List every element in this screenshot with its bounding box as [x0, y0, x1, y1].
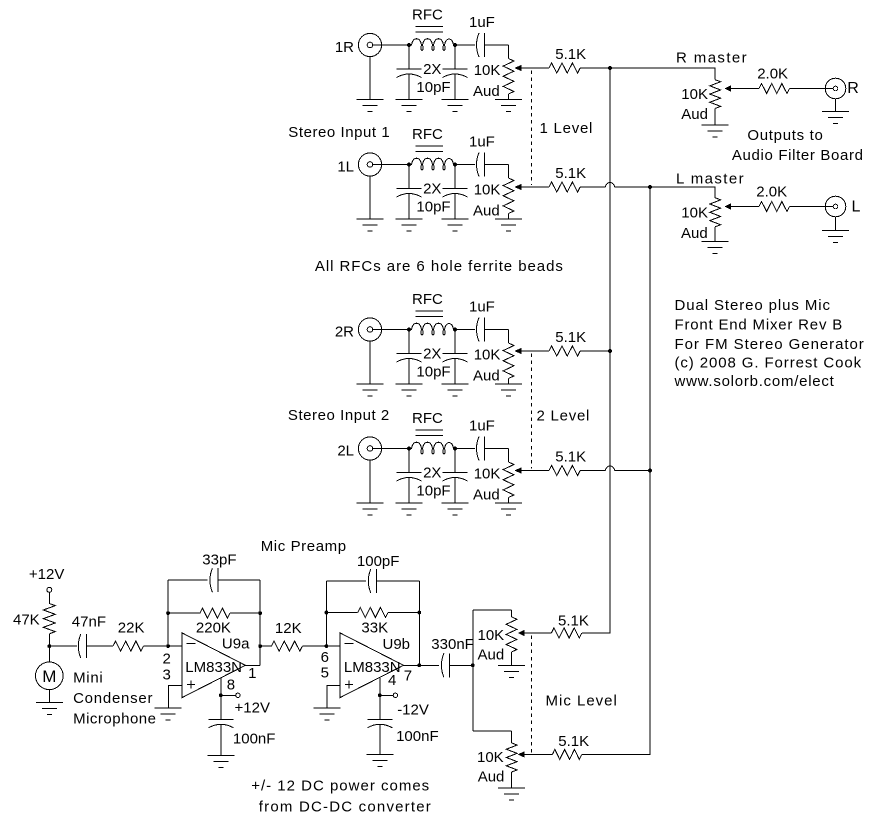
dashed gang link 2 Level [531, 354, 533, 469]
svg-text:10K: 10K [477, 749, 504, 766]
svg-text:For FM Stereo Generator: For FM Stereo Generator [675, 336, 865, 353]
node mic level [471, 663, 475, 667]
wire L master wiper to 2.0K [731, 206, 760, 208]
node U9a feedback left [166, 611, 170, 615]
svg-text:-12V: -12V [397, 702, 429, 719]
node U9b feedback right [417, 611, 421, 615]
node B 2L [453, 447, 457, 451]
svg-text:Audio Filter Board: Audio Filter Board [732, 147, 864, 164]
resistor 220K [200, 608, 230, 618]
L bus wire [582, 187, 650, 754]
svg-text:1uF: 1uF [469, 299, 495, 316]
wire U9b 33K branch right [388, 612, 419, 614]
svg-text:2X: 2X [423, 346, 441, 363]
svg-text:10K: 10K [474, 182, 501, 199]
wire wiper 2R to 5.1K [521, 350, 549, 352]
wiper arrow mic lower [519, 752, 524, 757]
svg-text:10K: 10K [681, 86, 708, 103]
input connector 2L [358, 437, 381, 460]
wire U9b output to 330nF [419, 664, 439, 666]
resistor 2.0K R [759, 84, 790, 94]
wire into U9a inverting input [168, 645, 182, 647]
wire 22K to U9a inverting node [144, 645, 169, 647]
ferrite core RFC 1R [416, 26, 444, 28]
svg-text:2 Level: 2 Level [537, 408, 591, 425]
input connector 1L [358, 153, 381, 176]
ground 100nF U9b [366, 754, 393, 756]
potentiometer 10K Aud mic upper [506, 617, 517, 652]
wire U9a top branch left [168, 579, 207, 581]
ground R master pot [701, 124, 728, 126]
svg-text:10pF: 10pF [416, 199, 450, 216]
svg-text:RFC: RFC [412, 291, 443, 308]
wire wiper 1R to 5.1K [521, 67, 549, 69]
wiper arrow L master [726, 204, 731, 209]
svg-text:Outputs to: Outputs to [747, 127, 823, 144]
svg-text:U9b: U9b [383, 636, 411, 653]
svg-text:+/- 12 DC power comes: +/- 12 DC power comes [251, 778, 430, 795]
ground pot 1R [495, 99, 522, 101]
wire U9b noninverting to ground [327, 686, 340, 709]
wire wiper 1L to 5.1K [521, 186, 549, 188]
svg-text:All RFCs are 6 hole ferrite be: All RFCs are 6 hole ferrite beads [315, 258, 564, 275]
wire 330nF to mic level node [449, 664, 472, 666]
input connector 2R [358, 318, 381, 341]
wire 5.1K 2R to R bus [580, 350, 610, 352]
svg-text:+12V: +12V [29, 566, 64, 583]
resistor 5.1K 1R [549, 63, 580, 73]
wire to lower mic pot [473, 730, 512, 732]
node B 1R [453, 43, 457, 47]
ground cap b 2L [442, 502, 469, 504]
potentiometer 10K Aud 2R [508, 330, 510, 344]
wire U9a 220K branch right [230, 612, 260, 614]
svg-text:(c) 2008 G. Forrest Cook: (c) 2008 G. Forrest Cook [675, 354, 863, 371]
svg-text:8: 8 [227, 677, 235, 694]
ground L output [835, 217, 837, 231]
capacitor 10pF a 2R [408, 330, 410, 354]
svg-text:Microphone: Microphone [73, 710, 156, 727]
svg-text:10pF: 10pF [416, 364, 450, 381]
svg-text:RFC: RFC [412, 126, 443, 143]
node A 1R [407, 43, 411, 47]
wire connector 2R to node A [373, 329, 409, 331]
node U9a inverting input [166, 644, 170, 648]
svg-text:10pF: 10pF [416, 483, 450, 500]
potentiometer 10K Aud mic lower [506, 743, 517, 772]
svg-text:1uF: 1uF [469, 14, 495, 31]
ferrite core RFC 1L [416, 145, 444, 147]
ground pot 2R [495, 383, 522, 385]
svg-text:5.1K: 5.1K [558, 613, 589, 630]
svg-text:2.0K: 2.0K [757, 66, 788, 83]
svg-text:10K: 10K [681, 205, 708, 222]
wire U9b feedback right riser [418, 581, 420, 665]
wiper arrow 2L [516, 468, 521, 473]
inductor RFC 2L [409, 442, 455, 454]
inductor RFC 1L [409, 158, 455, 170]
svg-text:Dual Stereo plus Mic: Dual Stereo plus Mic [675, 297, 831, 314]
output connector L [825, 196, 846, 217]
svg-text:10K: 10K [478, 627, 505, 644]
svg-text:L: L [852, 199, 861, 216]
wiper arrow 2R [516, 349, 521, 354]
ground U9b noninverting [313, 707, 340, 709]
node A 2R [407, 328, 411, 332]
capacitor 1uF 2R [455, 329, 475, 331]
ground pot 1L [495, 218, 522, 220]
wire mic node to 47nF [49, 645, 77, 647]
wire U9b pin4 to -12V [379, 678, 381, 696]
potentiometer 10K Aud L master [710, 198, 721, 227]
ground mic pot upper [498, 665, 525, 667]
wire 47nF to 22K [86, 645, 113, 647]
svg-text:5.1K: 5.1K [555, 46, 586, 63]
capacitor 10pF a 2L [408, 449, 410, 473]
wire mic upper wiper to 5.1K [524, 632, 551, 634]
wire 12K to U9b inverting node [302, 645, 326, 647]
ground cap a 1R [396, 99, 423, 101]
wire connector 1R to node A [373, 44, 409, 46]
capacitor 1uF 1L [455, 164, 475, 166]
ground 100nF U9a [208, 754, 235, 756]
wiper arrow R master [726, 86, 731, 91]
svg-text:100pF: 100pF [357, 553, 400, 570]
svg-text:M: M [42, 667, 56, 686]
ground connector 2R [369, 341, 371, 384]
ground cap b 2R [442, 383, 469, 385]
ground mic pot lower [498, 787, 525, 789]
wire U9b output [404, 664, 420, 666]
svg-text:2X: 2X [423, 181, 441, 198]
resistor 33K [358, 608, 388, 618]
svg-text:Mic Preamp: Mic Preamp [261, 538, 347, 555]
potentiometer 10K Aud 1R [508, 45, 510, 59]
ground cap a 2R [396, 383, 423, 385]
junction 1L on bus [648, 185, 652, 189]
capacitor 100nF U9b [379, 695, 381, 719]
potentiometer 10K Aud 2L [508, 449, 510, 463]
node mic [47, 644, 51, 648]
svg-text:from DC-DC converter: from DC-DC converter [259, 799, 432, 816]
capacitor 10pF b 2L [454, 449, 456, 473]
ground connector 1R [369, 57, 371, 100]
resistor 5.1K mic lower [552, 749, 581, 759]
node U9b supply [378, 693, 382, 697]
node A 2L [407, 447, 411, 451]
potentiometer 10K Aud 1L [508, 165, 510, 179]
svg-text:Aud: Aud [478, 769, 505, 786]
svg-text:1uF: 1uF [469, 418, 495, 435]
svg-text:Mic Level: Mic Level [546, 693, 618, 710]
svg-text:Aud: Aud [681, 106, 708, 123]
svg-text:100nF: 100nF [396, 728, 439, 745]
svg-text:2X: 2X [423, 465, 441, 482]
junction 2R on bus [608, 349, 612, 353]
svg-text:1L: 1L [337, 159, 354, 176]
wire +12V to 47K [48, 592, 50, 603]
svg-text:U9a: U9a [222, 636, 250, 653]
svg-text:R master: R master [676, 49, 748, 66]
ferrite core RFC 2R [416, 310, 444, 312]
wire U9b feedback left riser [325, 581, 327, 646]
wire R bus to R master pot [610, 68, 715, 80]
wire U9a pin8 to +12V [220, 678, 222, 695]
svg-text:5.1K: 5.1K [558, 733, 589, 750]
op-amp U9a [182, 633, 245, 698]
svg-text:R: R [847, 80, 859, 97]
capacitor 33pF [210, 568, 213, 592]
svg-text:RFC: RFC [412, 410, 443, 427]
op-amp U9b [340, 633, 403, 698]
svg-text:47nF: 47nF [72, 614, 106, 631]
svg-text:1R: 1R [335, 39, 354, 56]
wire L bus to L master pot [650, 187, 715, 198]
capacitor 47nF [78, 634, 81, 658]
node U9b output tap [417, 663, 421, 667]
ground cap a 1L [396, 218, 423, 220]
capacitor 100pF [368, 569, 371, 593]
ground cap b 1L [442, 218, 469, 220]
svg-text:2X: 2X [423, 61, 441, 78]
wire 2.0K to R output [790, 88, 834, 90]
node U9a feedback right [258, 611, 262, 615]
dashed gang link 1 Level [531, 71, 533, 186]
svg-text:LM833N: LM833N [185, 659, 242, 676]
wire U9b top branch right [376, 580, 419, 582]
svg-text:www.solorb.com/elect: www.solorb.com/elect [674, 373, 835, 390]
ground connector 1L [369, 176, 371, 219]
wire wiper 2L to 5.1K [521, 470, 549, 472]
ground pot 2L [495, 502, 522, 504]
resistor 2.0K L [759, 202, 790, 212]
wire U9b top branch left [326, 580, 365, 582]
wiper arrow mic upper [519, 631, 524, 636]
wire U9a output to 12K [260, 645, 271, 647]
svg-text:220K: 220K [196, 620, 231, 637]
svg-text:10K: 10K [474, 62, 501, 79]
svg-text:47K: 47K [13, 612, 40, 629]
wiper arrow 1R [516, 66, 521, 71]
svg-text:5.1K: 5.1K [555, 165, 586, 182]
svg-text:1uF: 1uF [469, 134, 495, 151]
ground connector 2L [369, 460, 371, 503]
svg-text:2R: 2R [335, 324, 354, 341]
wire 47K to mic node [48, 634, 50, 662]
capacitor 10pF b 1L [454, 165, 456, 189]
wire U9a 220K branch left [168, 612, 200, 614]
svg-text:5.1K: 5.1K [555, 449, 586, 466]
resistor 5.1K mic upper [551, 628, 581, 638]
svg-text:6: 6 [321, 649, 329, 666]
node U9b feedback left [325, 611, 329, 615]
wire U9a feedback left riser [167, 580, 169, 646]
svg-text:5.1K: 5.1K [555, 329, 586, 346]
R bus wire [582, 68, 610, 633]
ground L master pot [702, 240, 729, 242]
ground microphone [48, 690, 50, 703]
wire U9a output [245, 664, 260, 666]
ground cap a 2L [396, 502, 423, 504]
capacitor 10pF a 1L [408, 165, 410, 189]
wire 5.1K 2L to L bus with hop over R bus [580, 470, 605, 472]
wire connector 1L to node A [373, 164, 409, 166]
node U9a output tap [258, 644, 262, 648]
wire connector 2L to node A [373, 448, 409, 450]
svg-text:L master: L master [676, 170, 745, 187]
node U9a supply [219, 693, 223, 697]
wire 2.0K to L output [790, 206, 834, 208]
svg-text:+12V: +12V [235, 700, 270, 717]
capacitor 100nF U9a [220, 695, 222, 719]
capacitor 1uF 1R [455, 44, 475, 46]
wiper arrow 1L [516, 185, 521, 190]
wire mic level riser [472, 610, 474, 731]
input connector 1R [358, 33, 381, 56]
svg-text:Front End Mixer Rev B: Front End Mixer Rev B [675, 317, 844, 334]
resistor 47K [43, 604, 55, 634]
svg-text:Aud: Aud [478, 647, 505, 664]
terminal +12V U9a [221, 694, 236, 696]
inductor RFC 1R [409, 39, 455, 51]
svg-text:2: 2 [163, 651, 171, 668]
capacitor 10pF a 1R [408, 45, 410, 69]
wire U9a feedback right riser [259, 580, 261, 665]
resistor 22K [113, 641, 144, 651]
inductor RFC 2R [409, 323, 455, 335]
svg-text:10K: 10K [474, 347, 501, 364]
svg-text:2L: 2L [337, 443, 354, 460]
svg-text:1 Level: 1 Level [540, 120, 594, 137]
svg-text:Condenser: Condenser [73, 690, 153, 707]
output connector R [825, 78, 846, 99]
microphone M1 [36, 662, 64, 690]
wire mic lower wiper to 5.1K [524, 753, 552, 755]
svg-text:330nF: 330nF [431, 636, 474, 653]
svg-text:10pF: 10pF [416, 79, 450, 96]
capacitor 10pF b 2R [454, 330, 456, 354]
svg-text:Aud: Aud [473, 83, 500, 100]
svg-text:Aud: Aud [473, 487, 500, 504]
svg-text:1: 1 [248, 665, 256, 682]
svg-text:10K: 10K [474, 466, 501, 483]
wire to upper mic pot [473, 609, 512, 611]
wire U9a noninverting to ground [169, 686, 183, 709]
svg-text:Mini: Mini [73, 670, 103, 687]
capacitor 10pF b 1R [454, 45, 456, 69]
svg-text:7: 7 [404, 668, 412, 685]
junction 2L on bus [648, 469, 652, 473]
svg-text:22K: 22K [118, 620, 145, 637]
ferrite core RFC 2L [416, 429, 444, 431]
node A 1L [407, 163, 411, 167]
svg-text:Aud: Aud [473, 368, 500, 385]
node B 2R [453, 328, 457, 332]
junction 1R on bus [608, 66, 612, 70]
potentiometer 10K Aud R master [710, 80, 721, 109]
resistor 5.1K 2R [549, 346, 580, 356]
dashed gang link Mic Level [531, 636, 533, 753]
svg-text:5: 5 [321, 665, 329, 682]
wire U9a top branch right [218, 579, 260, 581]
svg-text:RFC: RFC [412, 7, 443, 24]
svg-text:3: 3 [163, 667, 171, 684]
svg-text:33K: 33K [361, 620, 388, 637]
wire 5.1K 1R to R bus [580, 67, 610, 69]
svg-text:4: 4 [388, 672, 396, 689]
resistor 12K [271, 641, 302, 651]
svg-text:Aud: Aud [681, 225, 708, 242]
svg-text:12K: 12K [275, 620, 302, 637]
svg-text:Stereo Input 1: Stereo Input 1 [288, 124, 390, 141]
svg-text:100nF: 100nF [233, 731, 276, 748]
svg-text:Stereo Input 2: Stereo Input 2 [288, 407, 390, 424]
node B 1L [453, 163, 457, 167]
capacitor 330nF [441, 653, 444, 677]
ground cap b 1R [442, 99, 469, 101]
wire U9b 33K branch left [326, 612, 357, 614]
terminal -12V U9b [380, 694, 393, 696]
wire 5.1K 1L to L bus with hop over R bus [580, 186, 605, 188]
capacitor 1uF 2L [455, 448, 475, 450]
svg-text:2.0K: 2.0K [756, 184, 787, 201]
wire R master wiper to 2.0K [731, 88, 760, 90]
svg-text:33pF: 33pF [202, 552, 236, 569]
node U9b inverting input [325, 644, 329, 648]
ground U9a noninverting [155, 707, 182, 709]
resistor 5.1K 2L [549, 466, 580, 476]
ground R output [835, 99, 837, 112]
wire into U9b inverting input [326, 645, 340, 647]
terminal +12V top [47, 587, 52, 592]
svg-text:Aud: Aud [473, 203, 500, 220]
resistor 5.1K 1L [549, 182, 580, 192]
